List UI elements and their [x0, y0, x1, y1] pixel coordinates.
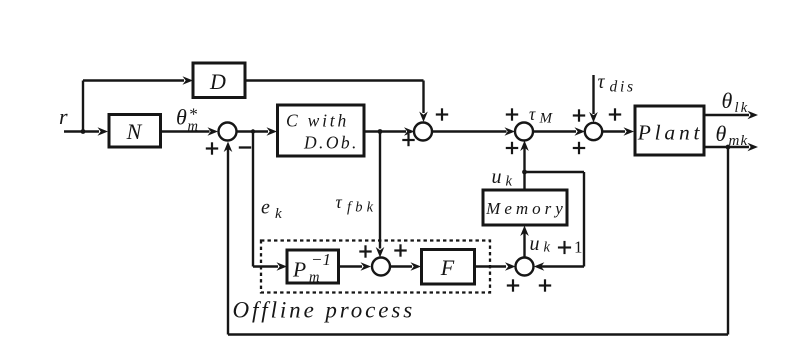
node feedback branch: [726, 145, 731, 150]
label theta_mk: [716, 121, 749, 149]
block F: [422, 250, 475, 285]
svg-text:τ: τ: [529, 104, 536, 124]
wire S4 to Plant: [602, 127, 634, 136]
svg-text:F: F: [440, 255, 455, 280]
wire Pm to S5: [339, 262, 372, 271]
svg-text:1: 1: [574, 238, 583, 257]
svg-text:Memory: Memory: [485, 199, 567, 218]
svg-text:dis: dis: [610, 79, 636, 96]
label Offline process: [233, 298, 416, 323]
wire D output to S2: [245, 81, 428, 123]
label plus S4 lower left: [573, 142, 585, 154]
label plus S6 left: [507, 279, 519, 291]
wire S1 to C block: [237, 127, 278, 136]
svg-text:u: u: [530, 233, 540, 255]
wire N to summing junction S1: [161, 127, 219, 136]
label plus S2 upper: [436, 108, 448, 120]
svg-text:k: k: [506, 174, 513, 190]
summing junction S6: [516, 258, 534, 276]
wire S5 to F: [390, 262, 421, 271]
block Memory: [483, 190, 567, 225]
block Pm inverse: [287, 250, 339, 286]
svg-text:D.Ob.: D.Ob.: [303, 133, 359, 153]
summing junction S5: [372, 258, 390, 276]
label plus S4 upper left: [573, 109, 585, 121]
svg-text:fbk: fbk: [347, 200, 377, 216]
block Plant: [635, 106, 704, 155]
label tau_fbk: [336, 192, 378, 216]
wire e_k down and into Pm: [253, 132, 287, 271]
wire S6 up into Memory: [520, 226, 529, 258]
svg-text:P: P: [292, 258, 306, 282]
svg-text:u: u: [492, 166, 502, 188]
label plus S5 right: [394, 244, 406, 256]
label plus S3 upper: [506, 108, 518, 120]
label plus S5 left: [359, 245, 371, 257]
label u_k+1: [530, 233, 583, 257]
summing junction S3: [515, 123, 533, 141]
wire theta_mk output: [704, 143, 758, 152]
svg-text:k: k: [544, 240, 551, 256]
wire r input: [64, 127, 108, 136]
block D: [193, 63, 245, 98]
label theta_m_star: [176, 105, 198, 135]
label tau_dis: [598, 72, 636, 96]
svg-text:−1: −1: [311, 250, 331, 269]
label theta_lk: [722, 88, 750, 116]
summing junction S2: [414, 123, 432, 141]
svg-text:Offline process: Offline process: [233, 298, 416, 323]
label plus S3 lower: [506, 142, 518, 154]
dashed box Offline process: [261, 241, 490, 293]
block N: [109, 115, 161, 148]
label minus S1: [239, 146, 251, 148]
svg-text:θ: θ: [716, 121, 727, 146]
label tau_M: [529, 104, 554, 127]
block C with D.Ob.: [278, 105, 365, 156]
svg-text:C with: C with: [286, 111, 349, 131]
svg-text:τ: τ: [598, 72, 606, 93]
label plus S2 lower: [402, 134, 414, 146]
wire F to S6: [475, 262, 516, 271]
wire Memory up to S3: [520, 141, 529, 191]
wire branch up to D: [83, 76, 193, 131]
wire tau_fbk down to S5: [376, 132, 385, 258]
wire C to summing junction S2: [364, 127, 415, 136]
svg-text:m: m: [188, 119, 198, 135]
svg-text:mk: mk: [729, 133, 749, 149]
node e_k branch: [251, 129, 255, 133]
summing junction S4: [585, 123, 602, 140]
label r (reference input): [59, 104, 68, 129]
label u_k: [492, 166, 513, 190]
label e_k: [261, 197, 282, 223]
wire u_k recirculation: [525, 172, 585, 271]
label plus S4 upper right: [609, 108, 621, 120]
svg-text:θ: θ: [176, 105, 187, 130]
svg-text:D: D: [209, 69, 226, 94]
svg-text:e: e: [261, 197, 270, 219]
node tau_fbk branch: [378, 129, 383, 134]
label plus S1: [206, 142, 218, 154]
svg-text:m: m: [309, 270, 319, 286]
svg-text:r: r: [59, 104, 68, 129]
svg-text:Plant: Plant: [637, 121, 704, 145]
summing junction S1: [219, 123, 237, 141]
wire feedback loop: [224, 142, 728, 335]
node u_k junction: [522, 170, 527, 175]
wire tau_dis input: [589, 75, 598, 123]
svg-text:N: N: [126, 119, 143, 144]
svg-text:θ: θ: [722, 88, 733, 113]
svg-text:lk: lk: [735, 100, 750, 116]
wire S2 to S3: [432, 127, 515, 136]
wire theta_lk output: [704, 111, 758, 120]
label plus S6 right: [539, 279, 551, 291]
node input branch junction: [81, 129, 86, 134]
svg-text:M: M: [539, 111, 554, 127]
svg-text:τ: τ: [336, 192, 343, 212]
svg-text:k: k: [275, 206, 282, 222]
wire S3 to S4: [533, 127, 585, 136]
